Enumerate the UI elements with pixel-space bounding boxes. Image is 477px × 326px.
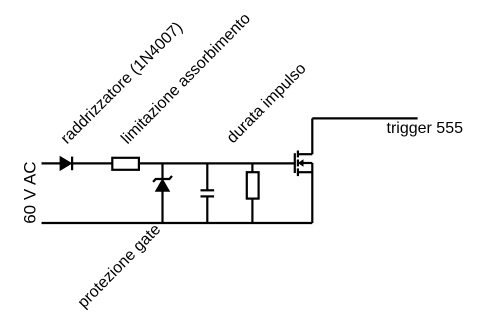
MOSFET drain tab xyxy=(298,153,312,155)
wire capacitor branch lower xyxy=(206,196,208,223)
zener diode triangle (anode, pointing up) xyxy=(156,179,170,191)
diode cathode bar xyxy=(71,157,73,171)
wire top rail from R1 to MOSFET gate xyxy=(139,162,295,164)
MOSFET channel segment bottom xyxy=(297,168,299,176)
svg-text:trigger 555: trigger 555 xyxy=(387,120,464,137)
MOSFET channel segment top xyxy=(297,151,299,158)
wire zener branch lower xyxy=(161,191,163,223)
wire source vertical down xyxy=(311,163,313,223)
wire bottom rail xyxy=(42,222,313,224)
MOSFET body arrow (points left) xyxy=(299,160,303,166)
wire diode to resistor R1 xyxy=(72,162,112,164)
diode rectifier 1N4007 (triangle) xyxy=(60,157,71,171)
wire zener branch upper xyxy=(161,163,163,179)
wire capacitor branch upper xyxy=(206,163,208,190)
zener diode cathode bar with bent ends xyxy=(153,176,172,182)
wire resistor R2 branch lower xyxy=(251,199,253,224)
MOSFET channel segment middle xyxy=(297,160,299,167)
wire resistor R2 branch upper xyxy=(251,163,253,172)
wire drain vertical up xyxy=(311,118,313,154)
capacitor top plate xyxy=(201,189,215,191)
MOSFET gate plate xyxy=(294,153,296,173)
resistor R1 (limitazione assorbimento) xyxy=(112,158,139,170)
capacitor bottom plate xyxy=(201,195,215,197)
wire trigger output line xyxy=(312,117,417,119)
MOSFET source tab xyxy=(298,171,312,173)
svg-text:60 V AC: 60 V AC xyxy=(21,161,40,223)
wire top rail left segment (AC input to diode) xyxy=(42,162,61,164)
wire body to source xyxy=(303,162,313,164)
resistor R2 (vertical) xyxy=(247,172,259,198)
